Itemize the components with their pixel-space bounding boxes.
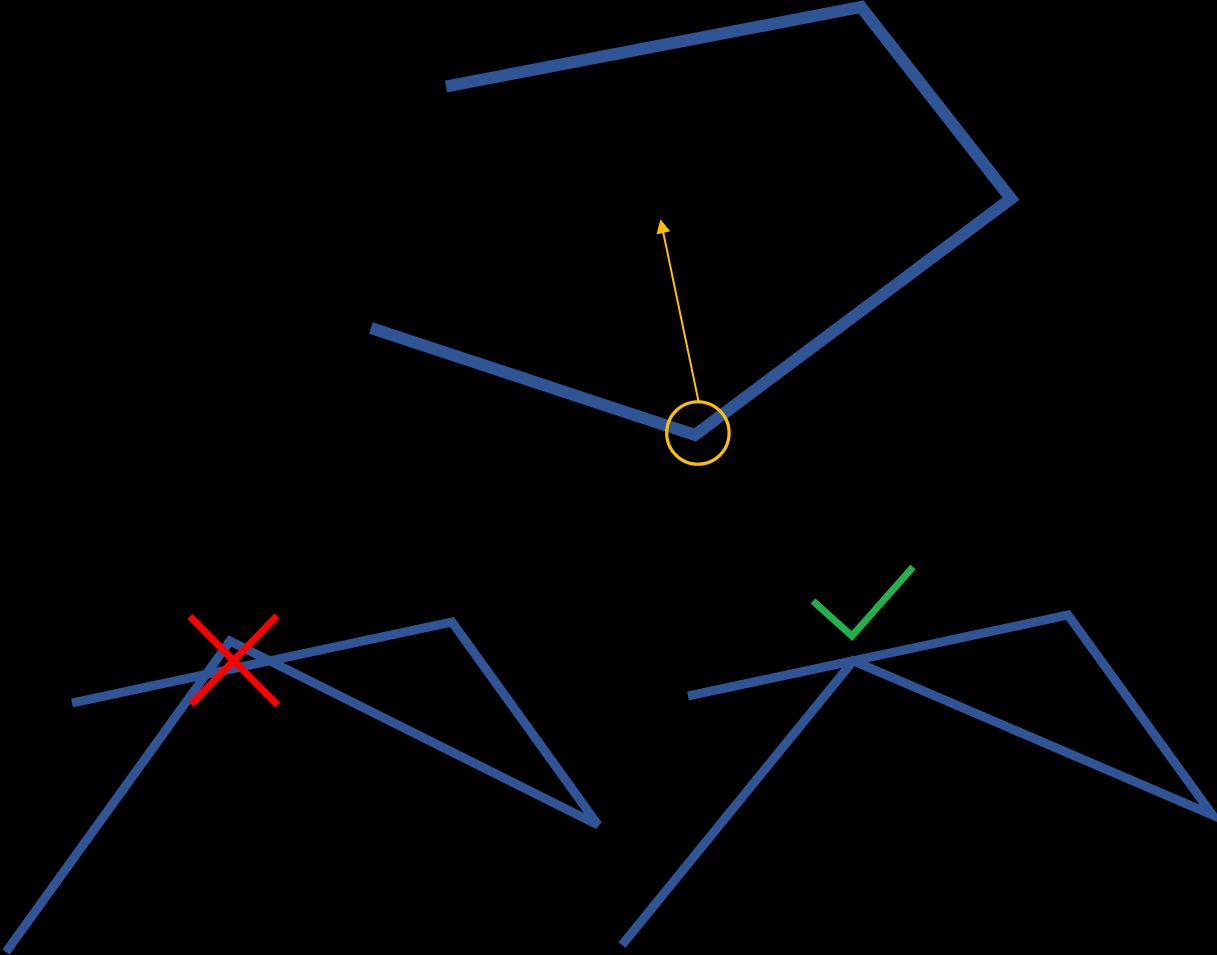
pentagon polyline (open, top figure) [371, 7, 1011, 435]
green check mark [813, 567, 913, 636]
arrow (vertex normal indicator) [657, 219, 699, 400]
correct polyline (bottom-right figure, snapped vertex) [622, 615, 1213, 945]
red X mark [190, 616, 278, 705]
wrong polyline (bottom-left figure, overshooting vertex) [6, 622, 598, 952]
vertex circle highlight [667, 402, 729, 464]
